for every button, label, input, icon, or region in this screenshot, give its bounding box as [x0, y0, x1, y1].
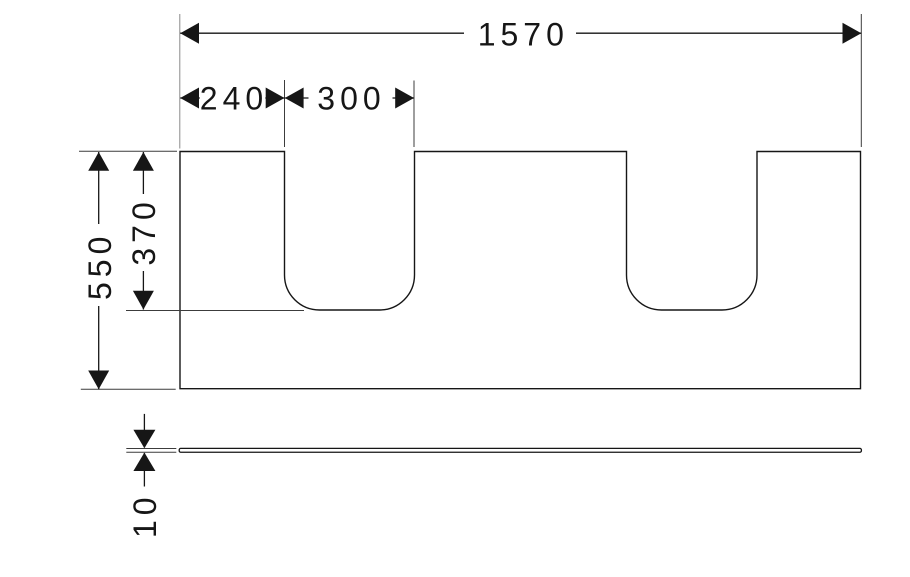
svg-text:1570: 1570	[478, 16, 569, 52]
svg-text:240: 240	[200, 81, 268, 117]
svg-text:300: 300	[317, 81, 385, 117]
svg-text:370: 370	[126, 197, 162, 265]
svg-text:550: 550	[82, 232, 118, 300]
svg-text:10: 10	[127, 492, 163, 538]
